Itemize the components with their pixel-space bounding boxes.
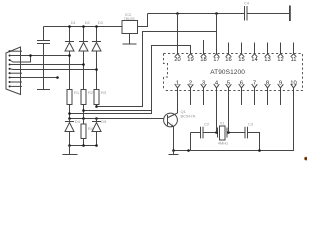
- svg-text:8: 8: [266, 80, 269, 86]
- svg-text:D1: D1: [71, 20, 77, 25]
- svg-text:14: 14: [251, 57, 258, 63]
- svg-text:D5: D5: [101, 119, 107, 124]
- svg-text:BC547A: BC547A: [181, 114, 196, 119]
- svg-text:11: 11: [290, 57, 296, 63]
- svg-text:R1: R1: [74, 90, 80, 95]
- svg-text:R4: R4: [88, 126, 94, 131]
- svg-text:D3: D3: [98, 20, 104, 25]
- svg-text:6: 6: [240, 80, 243, 86]
- svg-text:10: 10: [290, 80, 296, 86]
- svg-text:20: 20: [174, 57, 180, 63]
- svg-text:1: 1: [176, 80, 179, 86]
- svg-text:15: 15: [238, 57, 244, 63]
- svg-text:R3: R3: [101, 90, 107, 95]
- svg-text:AT90S1200: AT90S1200: [210, 69, 245, 76]
- svg-text:D4: D4: [75, 119, 81, 124]
- svg-text:7: 7: [253, 80, 256, 86]
- svg-text:C3: C3: [248, 122, 254, 127]
- svg-text:C4: C4: [244, 1, 250, 6]
- svg-text:2: 2: [189, 80, 192, 86]
- svg-text:78L05: 78L05: [124, 16, 136, 21]
- svg-text:13: 13: [264, 57, 270, 63]
- svg-text:X1: X1: [220, 121, 226, 126]
- svg-text:C2: C2: [204, 122, 210, 127]
- svg-text:D2: D2: [85, 20, 91, 25]
- svg-text:9: 9: [279, 80, 282, 86]
- svg-text:R2: R2: [88, 90, 94, 95]
- svg-text:3: 3: [202, 80, 205, 86]
- svg-text:18: 18: [200, 57, 206, 63]
- svg-text:12: 12: [277, 57, 283, 63]
- svg-text:4MHz: 4MHz: [218, 141, 228, 146]
- svg-text:17: 17: [213, 57, 219, 63]
- svg-text:16: 16: [225, 57, 231, 63]
- svg-text:19: 19: [187, 57, 193, 63]
- svg-text:5: 5: [227, 80, 230, 86]
